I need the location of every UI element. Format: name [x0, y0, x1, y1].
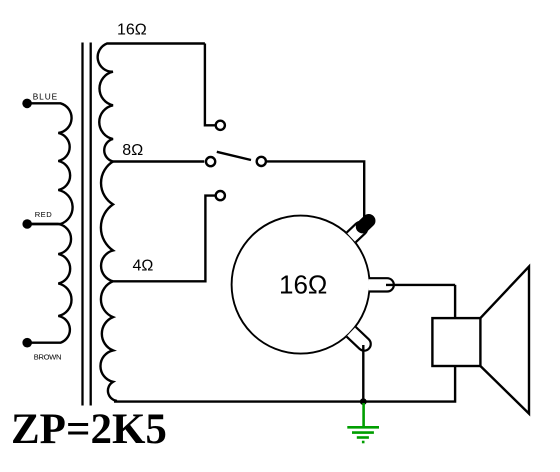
svg-text:16Ω: 16Ω: [117, 22, 147, 39]
svg-text:8Ω: 8Ω: [122, 142, 143, 159]
svg-text:16Ω: 16Ω: [279, 270, 327, 300]
svg-text:4Ω: 4Ω: [133, 258, 154, 275]
svg-text:ZP=2K5: ZP=2K5: [11, 406, 167, 453]
svg-text:BROWN: BROWN: [34, 353, 62, 362]
svg-text:BLUE: BLUE: [33, 91, 58, 101]
svg-text:RED: RED: [35, 210, 53, 219]
